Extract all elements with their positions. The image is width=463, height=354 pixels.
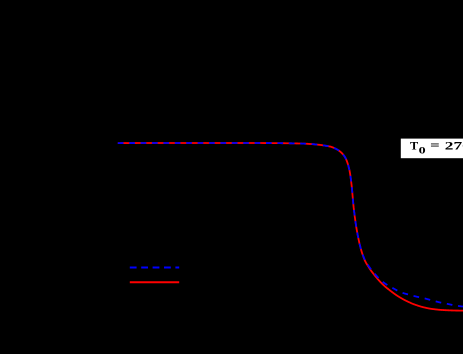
legend blue dashed sample bbox=[130, 267, 179, 269]
svg-text:=: = bbox=[430, 140, 440, 152]
title box bbox=[401, 139, 463, 159]
title text T0 = 270 bbox=[410, 140, 463, 157]
red solid curve bbox=[118, 143, 463, 311]
svg-text:T: T bbox=[410, 140, 419, 152]
legend red solid sample bbox=[130, 281, 179, 283]
blue dashed curve bbox=[118, 143, 463, 307]
svg-text:270: 270 bbox=[445, 140, 463, 152]
svg-text:0: 0 bbox=[419, 147, 426, 157]
